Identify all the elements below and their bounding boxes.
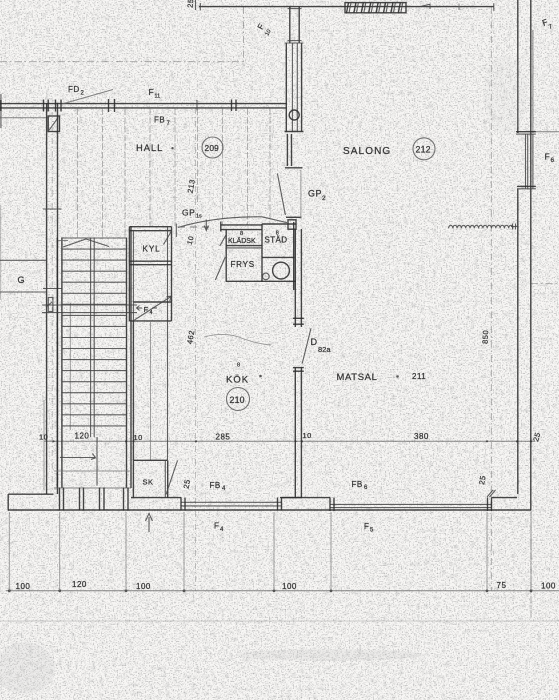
svg-text:SK: SK — [143, 478, 154, 487]
svg-text:4: 4 — [220, 527, 224, 533]
svg-text:100: 100 — [16, 582, 31, 591]
svg-text:82a: 82a — [318, 345, 331, 354]
svg-text:25: 25 — [477, 475, 487, 486]
svg-text:120: 120 — [75, 432, 90, 441]
svg-text:STÄD: STÄD — [265, 236, 288, 245]
svg-text:F: F — [545, 152, 551, 162]
svg-text:FB: FB — [210, 481, 221, 490]
svg-text:6: 6 — [551, 157, 555, 164]
svg-text:GP: GP — [182, 208, 195, 218]
svg-text:8: 8 — [237, 363, 241, 369]
svg-text:1s: 1s — [196, 214, 202, 220]
svg-text:D: D — [311, 337, 318, 347]
svg-text:F: F — [144, 305, 149, 314]
svg-text:MATSAL: MATSAL — [337, 371, 378, 382]
svg-text:75: 75 — [497, 581, 507, 590]
svg-text:100: 100 — [136, 582, 151, 591]
svg-text:10: 10 — [134, 433, 143, 442]
svg-text:FD: FD — [68, 85, 80, 94]
svg-text:10: 10 — [39, 433, 48, 442]
svg-text:25: 25 — [186, 0, 196, 8]
svg-text:11: 11 — [155, 94, 161, 100]
svg-text:FRYS: FRYS — [231, 260, 255, 269]
svg-text:120: 120 — [72, 580, 87, 589]
svg-text:10: 10 — [303, 431, 312, 440]
svg-text:GP: GP — [308, 189, 322, 199]
svg-text:380: 380 — [414, 432, 429, 441]
svg-text:F: F — [149, 87, 155, 97]
svg-text:285: 285 — [216, 433, 231, 442]
svg-text:KLÄDSK: KLÄDSK — [228, 237, 256, 245]
svg-text:212: 212 — [416, 145, 431, 155]
svg-text:FB: FB — [154, 116, 165, 125]
svg-text:HALL: HALL — [136, 143, 163, 153]
svg-text:FB: FB — [352, 480, 363, 489]
svg-text:850: 850 — [481, 330, 491, 344]
svg-text:G: G — [18, 275, 26, 285]
svg-text:F: F — [214, 522, 219, 531]
svg-text:100: 100 — [282, 582, 297, 591]
svg-text:210: 210 — [230, 395, 245, 405]
svg-text:KÖK: KÖK — [226, 375, 249, 386]
svg-text:4: 4 — [150, 310, 154, 316]
svg-text:100: 100 — [541, 582, 556, 591]
svg-text:SALONG: SALONG — [343, 146, 391, 157]
svg-text:209: 209 — [205, 143, 220, 153]
svg-text:7: 7 — [167, 121, 171, 127]
svg-text:2: 2 — [81, 91, 85, 97]
svg-text:6: 6 — [364, 485, 368, 491]
svg-text:F: F — [364, 522, 369, 531]
svg-text:8: 8 — [240, 231, 244, 237]
svg-text:4: 4 — [222, 486, 226, 492]
svg-text:5: 5 — [370, 528, 374, 534]
svg-text:KYL: KYL — [143, 245, 161, 254]
svg-text:211: 211 — [412, 372, 426, 381]
svg-text:25: 25 — [182, 479, 192, 490]
svg-text:2: 2 — [322, 195, 326, 202]
